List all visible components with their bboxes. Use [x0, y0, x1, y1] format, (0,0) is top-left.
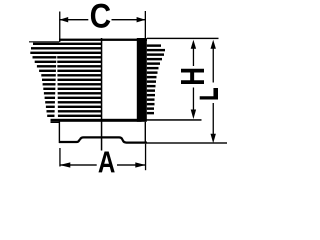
dimension A label: [99, 152, 115, 173]
flange left edge: [59, 122, 60, 144]
right cooling fins: [147, 44, 165, 114]
dimension C left extension line: [59, 12, 60, 43]
H bottom extension line: [142, 119, 202, 121]
H and L top extension line: [147, 38, 219, 39]
dimension L line lower segment: [213, 103, 214, 134]
dimension C left arrowhead: [59, 17, 68, 22]
left cooling fins: [30, 43, 101, 122]
dimension C right extension line: [145, 11, 146, 39]
bottom extension line to the right: [147, 142, 227, 143]
dimension A line right segment: [117, 164, 145, 165]
dimension L line upper segment: [213, 47, 214, 83]
dimension H label (rotated): [181, 69, 204, 84]
left bore wall: [101, 38, 103, 151]
dimension A left extension line: [59, 148, 60, 167]
fin bottom boundary line: [51, 119, 142, 122]
fin relief white band: [54, 56, 58, 122]
dimension C right arrowhead: [137, 17, 146, 22]
dimension A left arrowhead: [60, 162, 71, 167]
dimension C label: [91, 4, 110, 28]
dimension H line lower segment: [193, 88, 194, 112]
bottom profile: [59, 137, 147, 142]
top fin edge line left of flange: [29, 41, 59, 42]
dimension H top arrowhead: [191, 40, 196, 49]
dimension L label (rotated): [200, 88, 218, 100]
dimension H bottom arrowhead: [191, 110, 196, 120]
dimension L top arrowhead: [211, 40, 216, 49]
skirt right edge: [145, 122, 146, 144]
dimension C line left segment: [59, 19, 88, 20]
dimension A line left segment: [60, 164, 97, 165]
dimension A right extension line: [145, 144, 146, 171]
dimension H line upper segment: [193, 47, 194, 67]
dimension L bottom arrowhead: [211, 134, 216, 144]
cylinder top face line: [59, 39, 147, 41]
dimension C line right segment: [112, 19, 146, 20]
dimension A right arrowhead: [135, 162, 145, 167]
right cylinder wall section (solid): [137, 38, 147, 122]
